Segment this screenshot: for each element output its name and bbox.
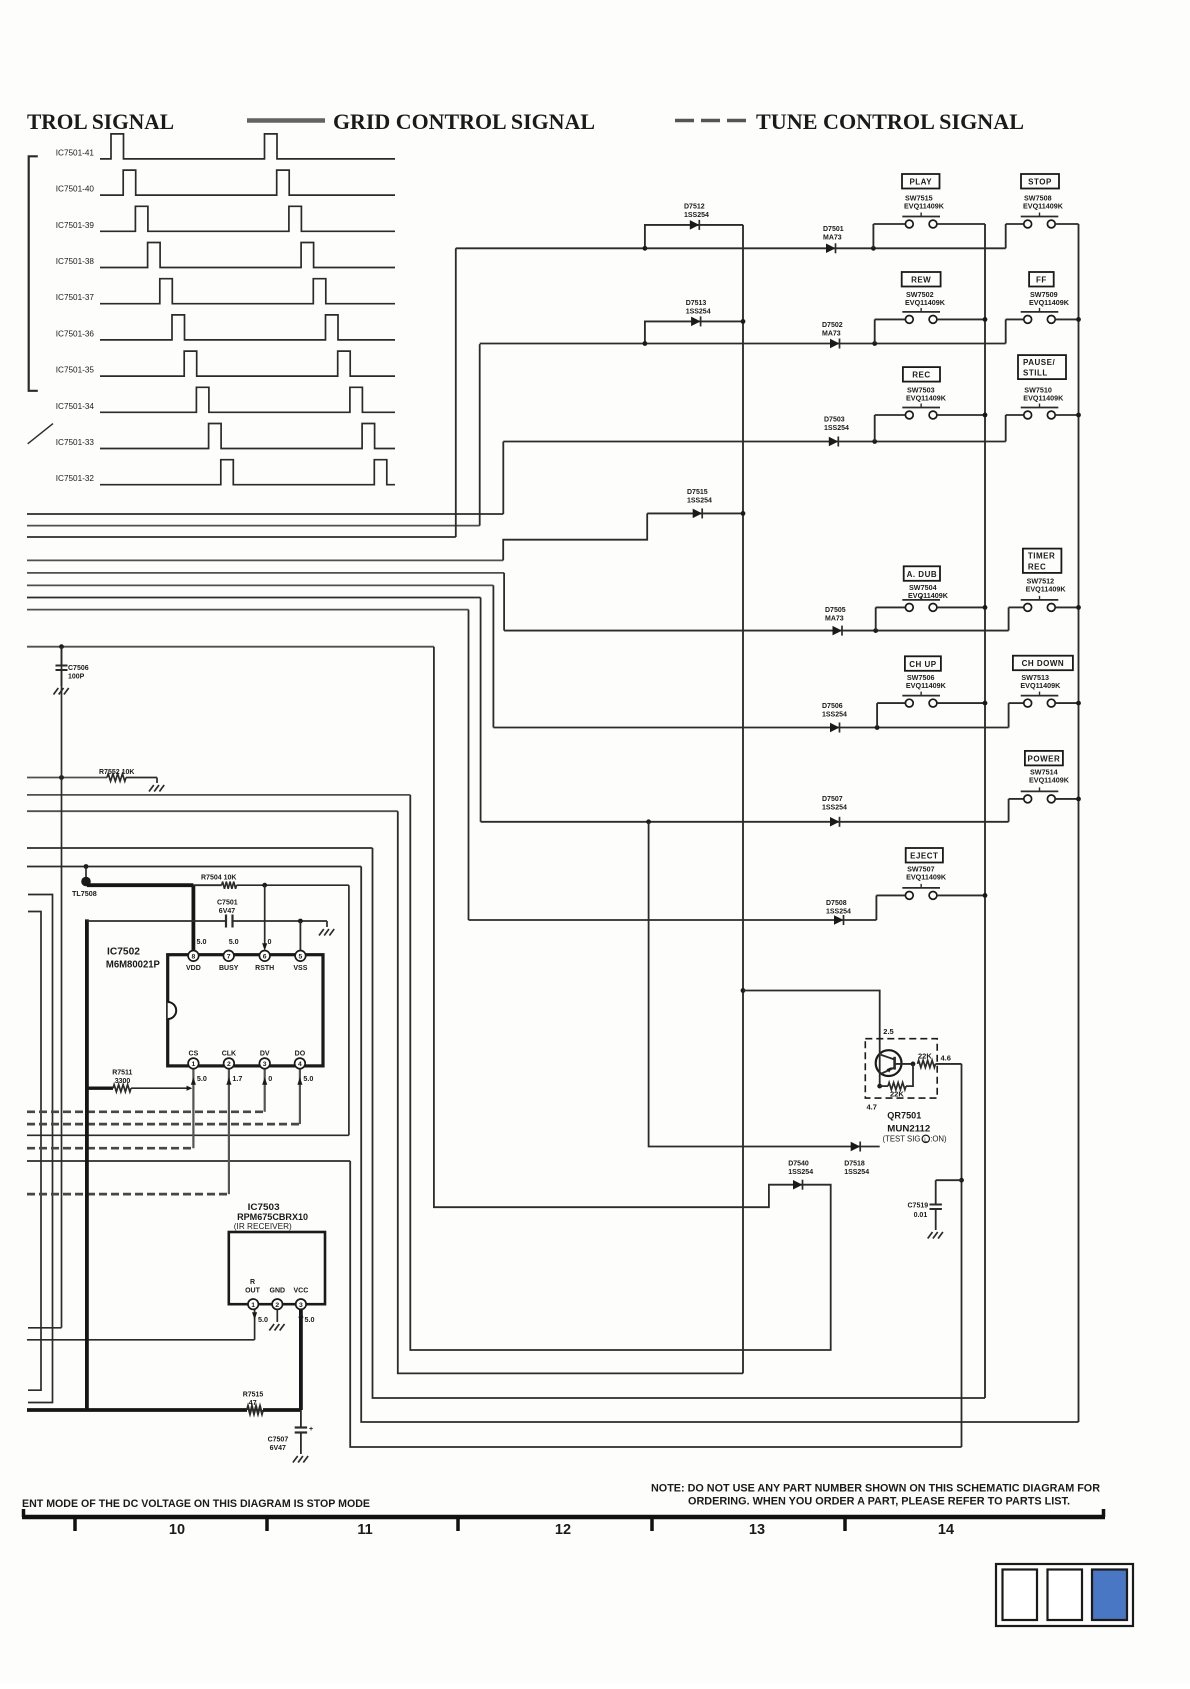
svg-text:GND: GND [270, 1288, 286, 1295]
svg-text:D7512: D7512 [684, 204, 705, 211]
svg-text:R7511: R7511 [112, 1070, 132, 1077]
svg-text:3: 3 [263, 1061, 267, 1068]
svg-text:6V47: 6V47 [270, 1445, 286, 1452]
svg-text:REW: REW [911, 276, 931, 285]
svg-text:IC7502: IC7502 [107, 947, 140, 958]
svg-text:ORDERING. WHEN YOU ORDER A P: ORDERING. WHEN YOU ORDER A PART, PLEASE … [688, 1496, 1070, 1508]
svg-text:5.0: 5.0 [305, 1315, 315, 1324]
svg-text:TUNE CONTROL SIGNAL: TUNE CONTROL SIGNAL [756, 109, 1024, 134]
svg-text:10: 10 [169, 1522, 185, 1538]
svg-text:D7518: D7518 [844, 1161, 865, 1168]
svg-text:8: 8 [192, 954, 196, 961]
svg-text:C7506: C7506 [68, 665, 89, 672]
svg-text:EVQ11409K: EVQ11409K [904, 202, 945, 211]
svg-text:R: R [250, 1279, 255, 1286]
svg-text:NOTE: DO NOT USE ANY PART NUMB: NOTE: DO NOT USE ANY PART NUMBER SHOWN O… [651, 1483, 1100, 1495]
svg-text:2: 2 [227, 1061, 231, 1068]
svg-text:BUSY: BUSY [219, 965, 239, 972]
svg-text:EVQ11409K: EVQ11409K [1029, 298, 1070, 307]
svg-text:VSS: VSS [293, 965, 307, 972]
svg-text:1SS254: 1SS254 [826, 909, 851, 916]
svg-text:L: L [924, 1137, 927, 1143]
svg-text:1SS254: 1SS254 [687, 498, 712, 505]
svg-text:D7503: D7503 [824, 417, 845, 424]
svg-text:IC7501-38: IC7501-38 [56, 257, 95, 266]
svg-text:1SS254: 1SS254 [822, 712, 847, 719]
svg-text:4: 4 [298, 1061, 302, 1068]
svg-text:GRID CONTROL SIGNAL: GRID CONTROL SIGNAL [333, 109, 595, 134]
svg-text:QR7501: QR7501 [887, 1110, 922, 1121]
svg-text:FF: FF [1036, 276, 1047, 285]
svg-text:2.5: 2.5 [883, 1027, 893, 1036]
svg-text:IC7501-34: IC7501-34 [56, 402, 95, 411]
svg-text:REC: REC [1028, 562, 1046, 571]
svg-text:IC7501-35: IC7501-35 [56, 366, 95, 375]
svg-text:D7501: D7501 [823, 226, 844, 233]
svg-text:VCC: VCC [294, 1288, 309, 1295]
svg-text:1SS254: 1SS254 [788, 1169, 813, 1176]
svg-text:0: 0 [268, 1074, 272, 1083]
svg-text:IC7501-33: IC7501-33 [56, 438, 95, 447]
svg-text:MUN2112: MUN2112 [887, 1123, 930, 1134]
svg-text:EVQ11409K: EVQ11409K [1020, 681, 1061, 690]
svg-text:6: 6 [263, 954, 267, 961]
svg-text:14: 14 [938, 1522, 954, 1538]
svg-text:D7540: D7540 [788, 1161, 809, 1168]
svg-text:(TEST SIG: (TEST SIG [883, 1135, 921, 1144]
svg-text:IC7501-41: IC7501-41 [56, 148, 95, 157]
svg-text:EVQ11409K: EVQ11409K [1023, 202, 1064, 211]
svg-text:CH DOWN: CH DOWN [1022, 659, 1065, 668]
svg-text:DV: DV [260, 1051, 270, 1058]
svg-text:STOP: STOP [1028, 178, 1052, 187]
svg-text:D7505: D7505 [825, 607, 846, 614]
svg-text:DO: DO [295, 1051, 306, 1058]
svg-text:VDD: VDD [186, 965, 201, 972]
svg-text:5.0: 5.0 [197, 1074, 207, 1083]
svg-text:IC7501-37: IC7501-37 [56, 293, 95, 302]
svg-text:5.0: 5.0 [258, 1315, 268, 1324]
svg-text:1SS254: 1SS254 [684, 212, 709, 219]
svg-text::ON): :ON) [930, 1135, 947, 1144]
svg-text:22K: 22K [918, 1052, 932, 1061]
svg-text:EVQ11409K: EVQ11409K [1029, 776, 1070, 785]
svg-text:EJECT: EJECT [910, 852, 938, 861]
svg-text:3300: 3300 [115, 1078, 131, 1085]
svg-text:EVQ11409K: EVQ11409K [908, 591, 949, 600]
svg-text:D7507: D7507 [822, 796, 843, 803]
svg-text:MA73: MA73 [823, 235, 842, 242]
svg-text:12: 12 [555, 1522, 571, 1538]
svg-text:100P: 100P [68, 674, 85, 681]
svg-text:22K: 22K [890, 1090, 904, 1099]
svg-text:6V47: 6V47 [219, 908, 235, 915]
svg-text:C7501: C7501 [217, 900, 238, 907]
svg-text:0: 0 [268, 937, 272, 946]
svg-text:CS: CS [189, 1051, 199, 1058]
svg-text:EVQ11409K: EVQ11409K [906, 873, 947, 882]
svg-text:EVQ11409K: EVQ11409K [1026, 585, 1067, 594]
svg-text:(IR RECEIVER): (IR RECEIVER) [234, 1222, 292, 1231]
svg-text:ENT MODE OF THE DC VOLTAGE ON: ENT MODE OF THE DC VOLTAGE ON THIS DIAGR… [22, 1498, 370, 1510]
svg-text:1.7: 1.7 [232, 1074, 242, 1083]
svg-text:PLAY: PLAY [909, 178, 932, 187]
svg-text:EVQ11409K: EVQ11409K [906, 681, 947, 690]
svg-text:OUT: OUT [245, 1288, 261, 1295]
svg-text:5.0: 5.0 [197, 937, 207, 946]
svg-text:IC7501-39: IC7501-39 [56, 221, 95, 230]
svg-text:1SS254: 1SS254 [844, 1169, 869, 1176]
svg-text:11: 11 [357, 1522, 372, 1538]
svg-text:EVQ11409K: EVQ11409K [906, 394, 947, 403]
svg-text:C7507: C7507 [268, 1437, 289, 1444]
svg-text:D7508: D7508 [826, 900, 847, 907]
svg-text:47: 47 [249, 1400, 257, 1407]
svg-text:PAUSE/: PAUSE/ [1023, 358, 1055, 367]
svg-text:REC: REC [912, 371, 930, 380]
svg-text:TL7508: TL7508 [72, 889, 97, 898]
svg-text:D7502: D7502 [822, 322, 843, 329]
svg-text:4.6: 4.6 [941, 1054, 951, 1063]
svg-text:3: 3 [299, 1302, 303, 1309]
svg-text:C7519: C7519 [908, 1203, 929, 1210]
svg-text:MA73: MA73 [825, 616, 844, 623]
svg-text:EVQ11409K: EVQ11409K [905, 298, 946, 307]
svg-text:D7506: D7506 [822, 703, 843, 710]
svg-text:M6M80021P: M6M80021P [106, 960, 160, 971]
svg-text:D7513: D7513 [686, 300, 707, 307]
svg-text:TROL SIGNAL: TROL SIGNAL [27, 109, 174, 134]
svg-text:STILL: STILL [1023, 369, 1048, 378]
svg-text:R7515: R7515 [243, 1392, 264, 1399]
svg-text:IC7501-36: IC7501-36 [56, 329, 95, 338]
svg-text:2: 2 [275, 1302, 279, 1309]
svg-text:CH UP: CH UP [909, 660, 937, 669]
svg-text:IC7501-40: IC7501-40 [56, 185, 95, 194]
svg-text:5: 5 [299, 954, 303, 961]
svg-text:1: 1 [192, 1061, 196, 1068]
svg-text:0.01: 0.01 [914, 1212, 928, 1219]
svg-text:5.0: 5.0 [303, 1074, 313, 1083]
svg-text:+: + [309, 1426, 313, 1433]
svg-text:7: 7 [227, 954, 231, 961]
svg-text:D7515: D7515 [687, 489, 708, 496]
svg-text:IC7501-32: IC7501-32 [56, 474, 95, 483]
svg-text:R7552 10K: R7552 10K [99, 769, 134, 776]
svg-text:EVQ11409K: EVQ11409K [1023, 394, 1064, 403]
svg-text:1SS254: 1SS254 [822, 805, 847, 812]
svg-text:A. DUB: A. DUB [907, 570, 938, 579]
svg-text:RSTH: RSTH [255, 965, 274, 972]
svg-text:5.0: 5.0 [229, 937, 239, 946]
svg-text:R7504 10K: R7504 10K [201, 875, 236, 882]
svg-text:POWER: POWER [1028, 754, 1061, 763]
svg-text:1SS254: 1SS254 [824, 425, 849, 432]
svg-text:1SS254: 1SS254 [686, 309, 711, 316]
svg-text:13: 13 [749, 1522, 765, 1538]
svg-text:MA73: MA73 [822, 331, 841, 338]
svg-text:1: 1 [251, 1302, 255, 1309]
svg-text:TIMER: TIMER [1028, 552, 1055, 561]
svg-text:4.7: 4.7 [867, 1103, 877, 1112]
svg-text:CLK: CLK [222, 1051, 236, 1058]
